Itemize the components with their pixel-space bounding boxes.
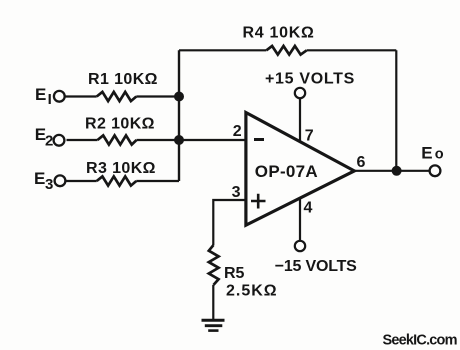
resistor R1 bbox=[97, 92, 137, 101]
op-amp U1 bbox=[246, 113, 354, 226]
node junction E2/bus bbox=[174, 135, 184, 145]
terminal E1 bbox=[35, 85, 65, 108]
svg-text:R5: R5 bbox=[224, 265, 245, 282]
wire E3 row bbox=[66, 180, 179, 182]
svg-text:E: E bbox=[421, 143, 432, 162]
svg-text:R4 10KΩ: R4 10KΩ bbox=[243, 25, 315, 42]
wire right vertical bbox=[395, 50, 397, 171]
wire feedback top bbox=[179, 49, 396, 51]
svg-text:3: 3 bbox=[45, 176, 53, 193]
svg-text:SeekIC.com: SeekIC.com bbox=[383, 333, 457, 349]
wire left bus bbox=[178, 50, 180, 181]
terminal -15 volts bbox=[295, 241, 305, 251]
node output junction bbox=[392, 166, 402, 176]
wire E2 row bbox=[67, 139, 180, 141]
resistor R5 bbox=[209, 245, 219, 285]
svg-text:2.5KΩ: 2.5KΩ bbox=[226, 282, 278, 299]
svg-text:7: 7 bbox=[305, 128, 314, 145]
svg-text:2: 2 bbox=[45, 133, 53, 150]
svg-text:I: I bbox=[48, 91, 52, 108]
svg-text:2: 2 bbox=[233, 123, 242, 140]
pin 7 wire bbox=[299, 99, 301, 143]
svg-text:−15 VOLTS: −15 VOLTS bbox=[275, 258, 357, 275]
terminal E0 bbox=[421, 143, 443, 176]
terminal +15 volts bbox=[295, 88, 305, 98]
resistor R3 bbox=[97, 176, 137, 185]
pin 4 wire bbox=[299, 198, 301, 240]
svg-text:R2 10KΩ: R2 10KΩ bbox=[85, 116, 155, 133]
wire output bbox=[354, 170, 429, 172]
svg-text:6: 6 bbox=[357, 154, 366, 171]
wire non-inverting input bbox=[213, 200, 245, 245]
wire inverting input bbox=[179, 139, 246, 141]
resistor R2 bbox=[98, 135, 137, 144]
non-inverting input plus sign bbox=[251, 194, 266, 209]
svg-text:o: o bbox=[435, 147, 444, 163]
terminal E3 bbox=[34, 169, 65, 193]
svg-text:R3 10KΩ: R3 10KΩ bbox=[86, 160, 156, 177]
terminal E2 bbox=[35, 125, 65, 150]
node junction E1/bus bbox=[174, 92, 184, 102]
inverting input minus sign bbox=[254, 138, 264, 141]
svg-text:3: 3 bbox=[232, 184, 241, 201]
ground bbox=[202, 320, 225, 330]
svg-text:E: E bbox=[35, 85, 46, 104]
svg-text:R1 10KΩ: R1 10KΩ bbox=[88, 71, 158, 88]
resistor R4 bbox=[266, 46, 306, 55]
svg-text:+15 VOLTS: +15 VOLTS bbox=[265, 71, 355, 88]
svg-text:4: 4 bbox=[304, 200, 313, 217]
svg-text:OP-07A: OP-07A bbox=[255, 162, 318, 181]
wire E1 row bbox=[66, 95, 180, 97]
svg-text:E: E bbox=[34, 169, 45, 188]
wire R5 to ground bbox=[212, 285, 214, 319]
